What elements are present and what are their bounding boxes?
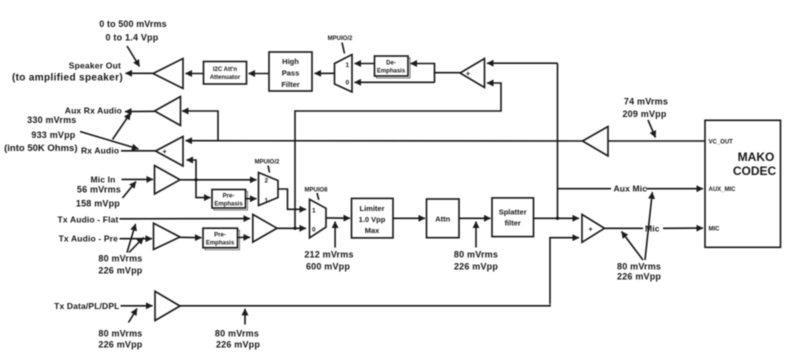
wire U1 tip to branch <box>434 72 460 74</box>
label 74 mVrms / 209 mVpp <box>622 97 668 120</box>
leader to aux mic wire <box>645 192 652 260</box>
wire vertical x557 up to U1 <box>557 63 559 218</box>
svg-text:Attn: Attn <box>435 215 450 224</box>
wire tx data elbow to U2 bottom input <box>550 238 579 304</box>
wire MAKO VC_OUT to A4 <box>608 140 705 142</box>
svg-text:filter: filter <box>505 219 521 228</box>
svg-text:Emphasis: Emphasis <box>214 202 243 208</box>
wire A6 output to M3 input 0 <box>277 227 306 229</box>
op-amp U2 mic summer <box>582 214 605 242</box>
label 212 mVrms / 600 mVpp <box>304 250 353 272</box>
block Splatter filter <box>492 198 534 237</box>
svg-text:Splatter: Splatter <box>499 208 527 217</box>
wire attn to splatter <box>459 217 491 219</box>
block Attn <box>427 199 460 238</box>
op-amp A7 tx pre amp <box>154 223 181 249</box>
mux M3 mic path select <box>310 199 327 238</box>
wire Rx Audio output <box>121 150 156 152</box>
junction mic sidetone <box>194 178 197 181</box>
svg-text:0: 0 <box>312 227 316 234</box>
wire A5 output to mux M2 input 2 <box>180 179 257 181</box>
leader M1 label <box>342 43 345 54</box>
svg-text:Speaker Out: Speaker Out <box>69 61 121 71</box>
wire Mic to MAKO MIC pin <box>663 227 703 229</box>
svg-text:(to amplified speaker): (to amplified speaker) <box>12 73 123 84</box>
svg-text:226 mVpp: 226 mVpp <box>98 266 142 276</box>
wire aux mic branch left part <box>558 188 612 190</box>
wire splatter to U2 top input <box>534 217 580 219</box>
svg-text:VC_OUT: VC_OUT <box>709 140 734 146</box>
svg-text:226 mVpp: 226 mVpp <box>617 272 661 282</box>
svg-text:Max: Max <box>365 226 380 235</box>
svg-text:56 mVrms: 56 mVrms <box>77 185 121 195</box>
junction at 295,228 <box>293 227 296 230</box>
wire Aux Rx output <box>125 110 155 112</box>
leader to VC_OUT wire <box>648 120 656 138</box>
leader to flat wire <box>127 224 136 253</box>
leader M2 label <box>268 166 270 173</box>
block Limiter <box>352 198 394 238</box>
svg-text:Emphasis: Emphasis <box>206 241 235 247</box>
svg-text:Tx Audio - Flat: Tx Audio - Flat <box>58 215 119 225</box>
junction at 557.5,218.3 <box>556 217 559 220</box>
wire vertical x295 Tx sum feed <box>294 110 296 228</box>
svg-text:MPUIO8: MPUIO8 <box>304 188 328 194</box>
svg-text:Rx Audio: Rx Audio <box>81 146 119 156</box>
label 80 mVrms / 226 mVpp txdata mid <box>215 329 260 350</box>
label 80 mVrms / 226 mVpp tx <box>98 254 142 276</box>
op-amp A3 Rx Audio summer <box>156 137 184 167</box>
block High Pass Filter <box>269 52 312 91</box>
wire to M1 input 0 <box>355 81 435 83</box>
svg-text:AUX_MIC: AUX_MIC <box>709 187 737 193</box>
wire M2 output elbow to M3 input 1 <box>278 189 306 209</box>
svg-text:CODEC: CODEC <box>733 164 777 178</box>
svg-text:Aux Mic: Aux Mic <box>614 184 648 194</box>
label 80 mVrms / 226 mVpp right <box>617 262 661 282</box>
svg-text:933 mVpp: 933 mVpp <box>31 130 75 140</box>
op-amp A4 VC_OUT buffer <box>583 127 609 157</box>
wire mux M1 to HPF <box>315 72 335 74</box>
block MAKO CODEC <box>705 120 781 247</box>
leader to tx data wire <box>129 309 138 323</box>
wire U1 output to De-Emphasis <box>411 63 435 65</box>
mux M2 mic select <box>259 173 279 206</box>
leader to U2 output wire <box>622 232 644 261</box>
svg-text:Filter: Filter <box>281 80 299 89</box>
wire Mic In to A5 <box>122 178 154 180</box>
svg-text:(into 50K Ohms): (into 50K Ohms) <box>4 143 77 154</box>
leader arrow up to M3 output wire <box>334 222 336 248</box>
svg-text:Pass: Pass <box>282 69 300 78</box>
leader from 933 mVpp to rx wire <box>80 132 139 150</box>
wire A2 input elbow from rx line <box>182 111 218 141</box>
svg-text:226 mVpp: 226 mVpp <box>216 340 260 350</box>
op-amp A6 tx summer <box>253 214 277 242</box>
svg-text:Tx Audio - Pre: Tx Audio - Pre <box>59 234 119 244</box>
svg-text:1: 1 <box>346 62 350 69</box>
svg-text:0 to 500 mVrms: 0 to 500 mVrms <box>99 19 166 29</box>
svg-text:226 mVpp: 226 mVpp <box>98 340 142 350</box>
wire rx long line from buffer to A3 <box>186 140 583 142</box>
svg-text:80 mVrms: 80 mVrms <box>617 262 661 272</box>
svg-text:Emphasis: Emphasis <box>377 69 406 75</box>
svg-text:MIC: MIC <box>709 227 721 233</box>
wire HPF to I2C attn <box>249 73 270 75</box>
wire I2C attn to A1 <box>186 73 204 75</box>
label 80 mVrms / 226 mVpp txdata left <box>98 329 142 350</box>
leader arrow up to tx data wire <box>244 309 246 325</box>
label 56 mVrms / 158 mVpp <box>76 185 121 209</box>
svg-text:80 mVrms: 80 mVrms <box>215 329 259 339</box>
label 330 mVrms / 933 mVpp / (into 50K Ohms) <box>4 115 77 154</box>
wire pre-emphasis to M2 input 1 <box>246 198 257 200</box>
svg-text:De-: De- <box>386 61 396 67</box>
svg-text:2: 2 <box>265 178 269 185</box>
leader to mic in wire <box>123 182 137 199</box>
wire Tx flat to A6 top input <box>120 218 251 220</box>
wire limiter to attn <box>393 217 425 219</box>
svg-text:158 mVpp: 158 mVpp <box>76 199 120 209</box>
block De-Emphasis <box>375 56 411 78</box>
svg-text:MPUIO/2: MPUIO/2 <box>328 36 353 42</box>
svg-text:209 mVpp: 209 mVpp <box>622 109 666 119</box>
wire branch vertical at 434 <box>434 63 436 83</box>
svg-text:MAKO: MAKO <box>738 150 775 164</box>
wire Tx pre to A7 <box>120 238 153 240</box>
svg-text:226 mVpp: 226 mVpp <box>454 262 498 272</box>
svg-text:1: 1 <box>265 198 269 205</box>
svg-text:MPUIO/2: MPUIO/2 <box>255 160 280 166</box>
svg-text:1: 1 <box>312 208 316 215</box>
svg-text:Aux Rx Audio: Aux Rx Audio <box>65 106 122 116</box>
svg-text:+: + <box>163 149 167 156</box>
svg-text:0 to 1.4 Vpp: 0 to 1.4 Vpp <box>106 33 159 43</box>
wire U2 output left part <box>605 227 644 229</box>
wire U1 bottom input elbow <box>295 83 501 111</box>
wire tx data in <box>121 305 153 307</box>
block I2C Att'n Attenuator <box>204 62 247 85</box>
wire junction down to pre-emphasis <box>196 180 211 198</box>
block Pre-Emphasis tx <box>203 228 240 250</box>
op-amp A1 speaker amp <box>153 59 183 89</box>
svg-text:+: + <box>589 227 593 234</box>
svg-text:1.0 Vpp: 1.0 Vpp <box>359 215 386 224</box>
wire A8 output long line <box>180 305 550 306</box>
svg-text:74 mVrms: 74 mVrms <box>624 97 668 107</box>
mux M1 speaker select <box>335 55 353 93</box>
wire De-Emphasis to M1 input 1 <box>355 63 375 65</box>
label 80 mVrms / 226 mVpp mid <box>454 250 498 272</box>
leader M3 label <box>317 193 319 200</box>
svg-text:Pre-: Pre- <box>214 233 226 239</box>
op-amp A8 tx data amp <box>155 291 180 320</box>
svg-text:600 mVpp: 600 mVpp <box>306 262 350 272</box>
svg-text:0: 0 <box>346 80 350 87</box>
block Pre-Emphasis mic <box>212 190 248 211</box>
svg-text:80 mVrms: 80 mVrms <box>98 329 142 339</box>
wire U1 top input from x558 vertical <box>487 62 558 64</box>
svg-text:330 mVrms: 330 mVrms <box>27 115 76 125</box>
svg-text:80 mVrms: 80 mVrms <box>98 254 142 264</box>
svg-text:Mic: Mic <box>645 223 660 233</box>
svg-text:I2C Att'n: I2C Att'n <box>213 67 238 73</box>
svg-text:Limiter: Limiter <box>359 204 384 213</box>
wire M3 output to limiter <box>326 217 350 219</box>
svg-text:Tx Data/PL/DPL: Tx Data/PL/DPL <box>54 301 119 311</box>
svg-text:80 mVrms: 80 mVrms <box>454 250 498 260</box>
svg-text:High: High <box>282 57 299 66</box>
leader to speaker wire <box>127 46 140 67</box>
wire A7 to pre-emphasis tx <box>180 236 202 238</box>
label Speaker Out <box>12 61 123 84</box>
op-amp A5 mic amp <box>155 166 181 195</box>
svg-text:Mic In: Mic In <box>91 175 116 185</box>
op-amp A2 Aux Rx Audio <box>155 97 181 126</box>
wire pre-emphasis tx to A6 bottom input <box>238 236 251 238</box>
wire speaker out <box>126 72 154 74</box>
label 0 to 500 mVrms / 0 to 1.4 Vpp <box>99 19 166 43</box>
leader to pre wire <box>129 238 144 253</box>
leader arrow up to attn output wire <box>475 222 477 248</box>
svg-text:+: + <box>466 71 470 78</box>
op-amp U1 speaker summer <box>460 59 485 88</box>
svg-text:Attenuator: Attenuator <box>210 75 241 81</box>
svg-text:212 mVrms: 212 mVrms <box>304 250 353 260</box>
svg-text:Pre-: Pre- <box>223 194 235 200</box>
leader from 933 mVpp to aux wire <box>113 113 131 140</box>
wire A3 sidetone input elbow <box>187 160 197 180</box>
wire Aux Mic to MAKO AUX_MIC pin <box>647 188 704 190</box>
